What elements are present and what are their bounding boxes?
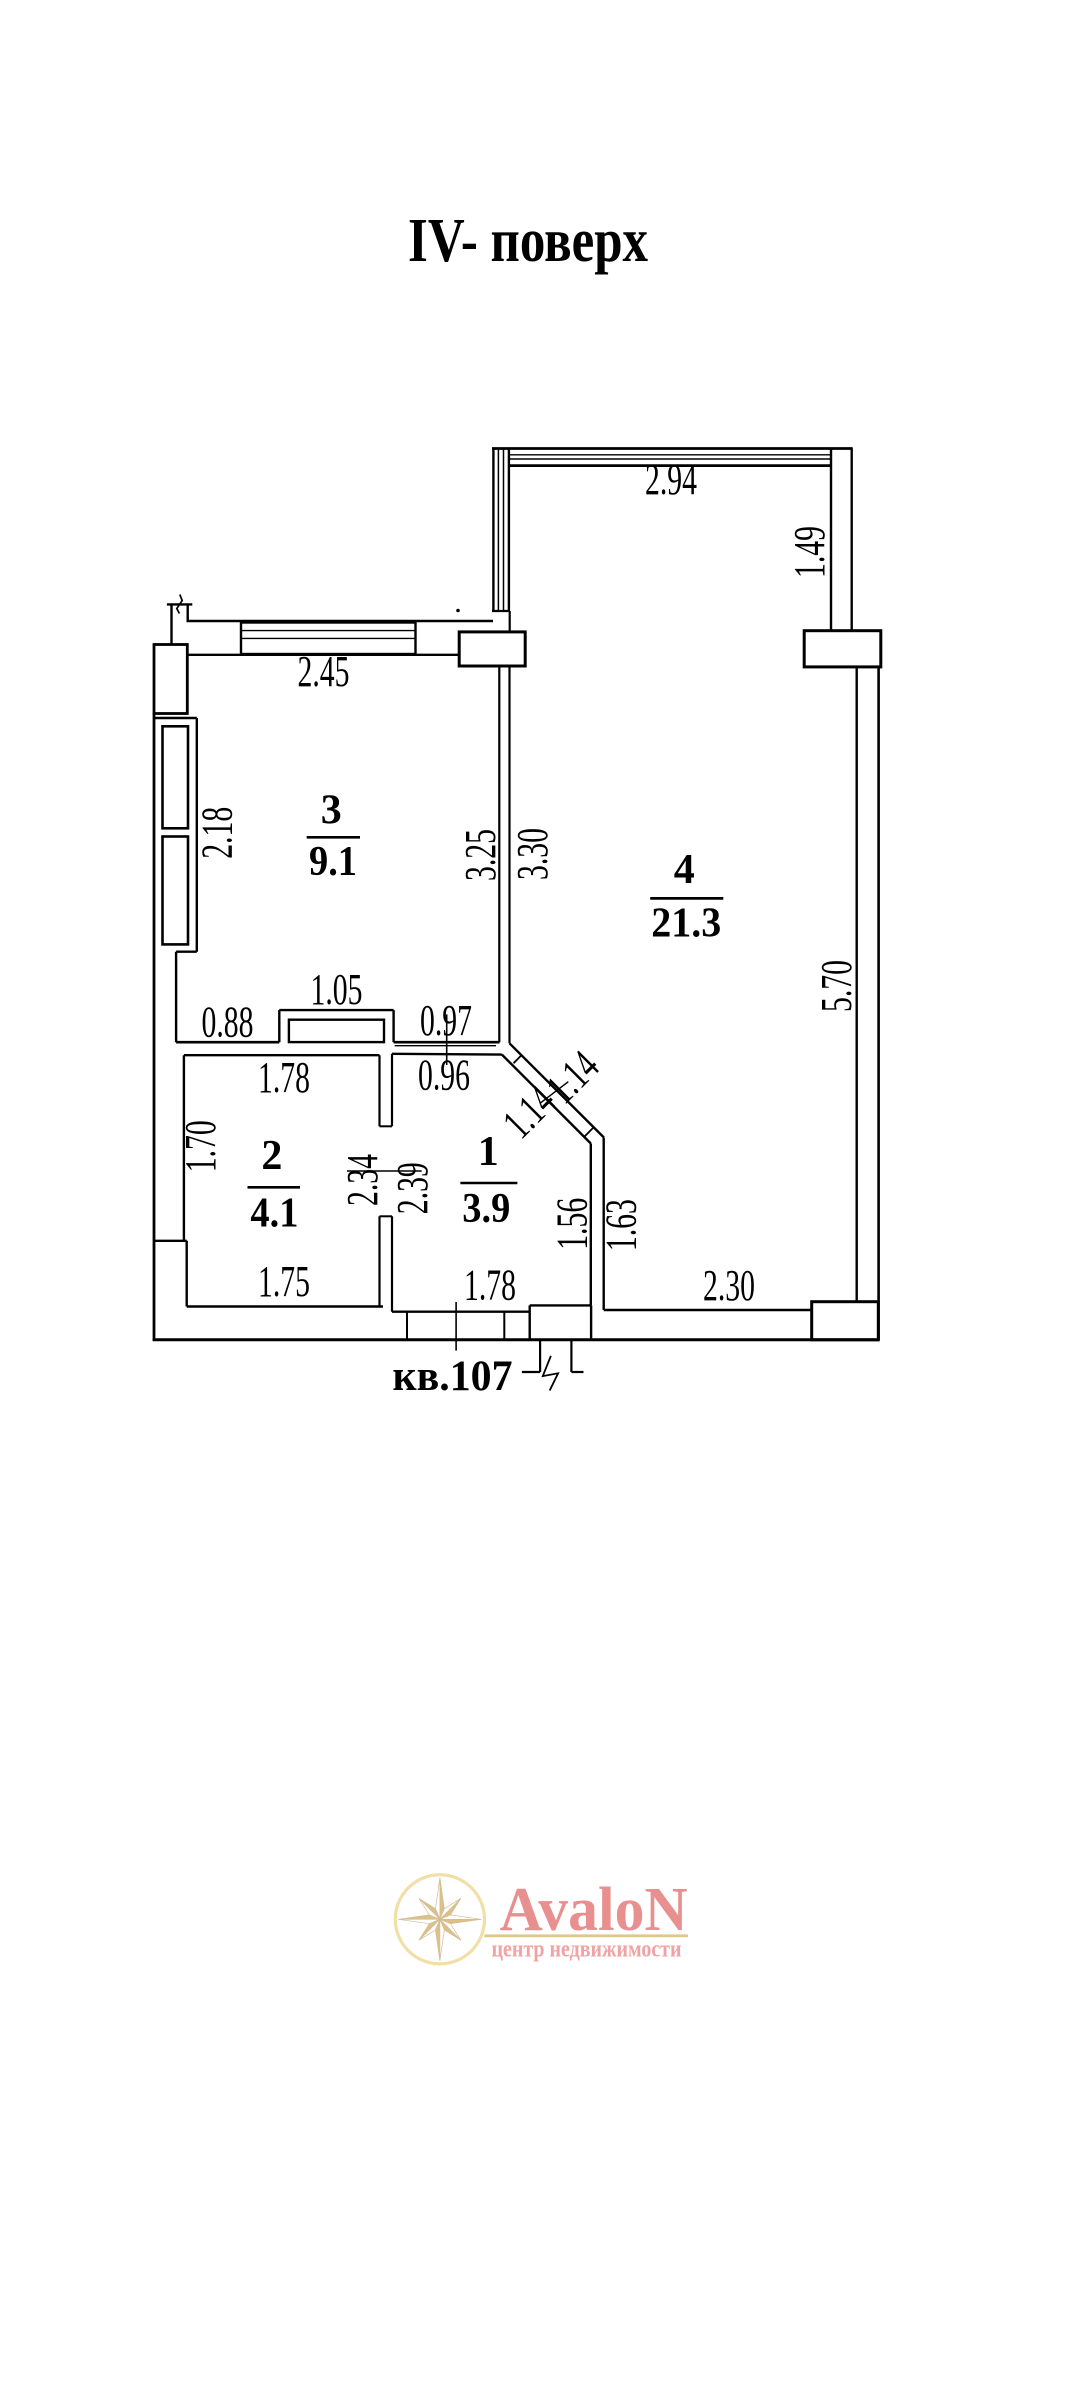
wall room2 bottom inner bbox=[187, 1305, 383, 1308]
entrance door line left bbox=[539, 1340, 541, 1372]
window casing bottom step bbox=[176, 951, 197, 953]
svg-text:0.88: 0.88 bbox=[202, 998, 254, 1047]
partition r3/r4 right line bbox=[508, 666, 510, 1043]
partition r3/r4 left line bbox=[498, 666, 500, 1042]
svg-text:AvaloN: AvaloN bbox=[500, 1876, 688, 1944]
window room3 top line 1 bbox=[241, 630, 416, 632]
wall room3 top outer bbox=[187, 620, 494, 622]
window room3 top line 2 bbox=[241, 637, 416, 639]
wall balcony window sill bbox=[509, 464, 831, 467]
break-mark zigzag top-left bbox=[177, 595, 182, 614]
svg-text:1.63: 1.63 bbox=[597, 1199, 646, 1251]
balcony left wall sill tick bbox=[492, 610, 510, 612]
door leaf room2 bbox=[289, 1020, 384, 1042]
diagonal wall outer bbox=[510, 1043, 604, 1137]
svg-text:3.30: 3.30 bbox=[508, 828, 557, 880]
pier top-left bbox=[154, 645, 187, 714]
wall room3 bottom right segment bbox=[394, 1041, 500, 1044]
door niche top bbox=[279, 1009, 393, 1011]
logo compass star bbox=[398, 1878, 481, 1961]
svg-text:1.56: 1.56 bbox=[547, 1198, 596, 1250]
wall room3 top inner bbox=[187, 654, 459, 656]
dim leader 1.78 room1 bbox=[455, 1302, 457, 1351]
svg-text:4.1: 4.1 bbox=[250, 1190, 298, 1236]
wall left outer bbox=[153, 714, 156, 1340]
svg-text:2.34: 2.34 bbox=[338, 1154, 387, 1206]
wall left step bbox=[154, 1240, 187, 1242]
svg-text:2: 2 bbox=[261, 1133, 282, 1179]
dim leader 1.14 bbox=[540, 1082, 568, 1104]
partition r2/r1 right upper bbox=[391, 1054, 393, 1127]
entrance threshold top bbox=[530, 1304, 591, 1306]
svg-text:4: 4 bbox=[674, 847, 695, 893]
door jamb r2/r1 lower bbox=[380, 1215, 393, 1217]
entrance threshold left bbox=[529, 1305, 531, 1339]
wall bottom outer bbox=[153, 1338, 879, 1341]
room 4 fraction line bbox=[650, 897, 723, 900]
entrance threshold right bbox=[590, 1305, 592, 1339]
room 1 fraction line bbox=[460, 1182, 517, 1185]
svg-text:кв.107: кв.107 bbox=[393, 1353, 513, 1400]
entrance door tick right bbox=[571, 1371, 583, 1373]
svg-text:2.30: 2.30 bbox=[703, 1261, 755, 1310]
wall thin line below room3 bottom bbox=[395, 1045, 496, 1047]
break-mark tick top-left bbox=[167, 603, 192, 605]
pier balcony-door right bbox=[804, 631, 881, 667]
svg-text:2.39: 2.39 bbox=[388, 1162, 437, 1214]
svg-text:2.45: 2.45 bbox=[298, 647, 350, 696]
pier balcony-door left bbox=[459, 632, 525, 666]
wall left inner upper bbox=[175, 952, 177, 1042]
svg-text:3.25: 3.25 bbox=[456, 829, 505, 881]
door niche right jamb bbox=[392, 1010, 394, 1042]
wall balcony window line 2 bbox=[509, 458, 831, 460]
wall room3 bottom left segment bbox=[176, 1041, 279, 1044]
entrance break zigzag bbox=[543, 1356, 558, 1391]
wall room4 right inner bbox=[856, 667, 858, 1302]
svg-text:2.94: 2.94 bbox=[645, 455, 697, 504]
wall left inner lower bbox=[185, 1241, 187, 1307]
wall r1/r4 outer bbox=[603, 1138, 605, 1311]
dim leader 2.34/2.39 bbox=[347, 1170, 422, 1172]
wall balcony left line d bbox=[508, 449, 510, 612]
bottom wall tick b bbox=[503, 1312, 505, 1340]
window casing top bbox=[154, 717, 197, 719]
diagonal door jamb lower bbox=[584, 1127, 593, 1137]
svg-text:1.78: 1.78 bbox=[464, 1261, 516, 1310]
wall balcony right outer bbox=[851, 449, 853, 631]
door niche left jamb bbox=[278, 1010, 280, 1042]
svg-text:9.1: 9.1 bbox=[309, 839, 357, 885]
svg-text:0.96: 0.96 bbox=[418, 1051, 470, 1100]
wall room2 top inner bbox=[184, 1054, 380, 1056]
wall r1/r4 inner bbox=[590, 1144, 592, 1306]
partition r2/r1 left upper bbox=[378, 1055, 380, 1126]
room 2 fraction line bbox=[248, 1186, 301, 1189]
svg-text:1.70: 1.70 bbox=[176, 1120, 225, 1172]
svg-text:1.78: 1.78 bbox=[258, 1053, 310, 1102]
partition r2/r1 left lower bbox=[378, 1216, 380, 1306]
window left lower bbox=[163, 837, 189, 945]
room 3 fraction line bbox=[307, 836, 360, 839]
wall balcony top outer bbox=[492, 447, 853, 450]
wall room2 left inner bbox=[183, 1055, 185, 1241]
dim leader 0.97/0.96 bbox=[446, 1014, 448, 1065]
wall room1 top bbox=[392, 1053, 502, 1056]
wall room4 bottom inner bbox=[604, 1309, 812, 1311]
wall balcony left line c bbox=[503, 449, 505, 612]
diagonal door jamb upper bbox=[514, 1056, 522, 1064]
wall balcony left line b bbox=[497, 449, 499, 612]
bottom wall tick a bbox=[406, 1312, 408, 1340]
wall balcony window line 1 bbox=[509, 454, 831, 456]
wall balcony left line a bbox=[492, 449, 494, 612]
svg-text:3.9: 3.9 bbox=[462, 1186, 510, 1232]
entrance door line right bbox=[570, 1340, 572, 1372]
wall balcony right inner bbox=[830, 449, 832, 631]
window casing right bbox=[196, 718, 198, 952]
partition r2/r1 right lower bbox=[391, 1216, 393, 1311]
svg-text:21.3: 21.3 bbox=[651, 900, 721, 946]
svg-text:IV- поверх: IV- поверх bbox=[408, 207, 648, 275]
wall room1 bottom inner bbox=[392, 1310, 530, 1312]
window left upper bbox=[163, 726, 189, 828]
wall stub to top wall bbox=[186, 604, 188, 621]
logo compass circle bbox=[395, 1875, 484, 1964]
logo gold underline bbox=[484, 1934, 688, 1937]
svg-text:5.70: 5.70 bbox=[812, 960, 861, 1012]
wall room4 right outer bbox=[877, 667, 880, 1340]
svg-text:3: 3 bbox=[321, 787, 342, 833]
svg-text:2.18: 2.18 bbox=[192, 807, 241, 859]
wall stub from break-mark bbox=[170, 604, 172, 645]
svg-text:1.75: 1.75 bbox=[258, 1257, 310, 1306]
diagonal wall inner bbox=[502, 1055, 591, 1144]
door jamb r2/r1 upper bbox=[380, 1125, 393, 1127]
svg-text:1.49: 1.49 bbox=[785, 526, 834, 578]
pier bottom-right bbox=[812, 1302, 879, 1340]
svg-text:1.05: 1.05 bbox=[311, 965, 363, 1014]
stray dot bbox=[456, 609, 460, 613]
wall stub below balcony left wall bbox=[509, 611, 511, 632]
svg-text:центр недвижимости: центр недвижимости bbox=[492, 1937, 682, 1963]
entrance door tick left bbox=[522, 1371, 540, 1373]
window room3 top frame bbox=[241, 623, 416, 655]
svg-text:1: 1 bbox=[478, 1129, 499, 1175]
